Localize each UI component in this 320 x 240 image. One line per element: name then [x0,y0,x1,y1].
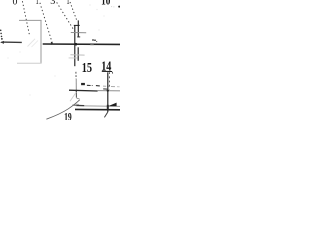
leader to label 19 (long diagonal) [46,100,79,120]
label 10 (top right, cut off) [101,0,110,8]
solid vertical under label 14 [107,72,109,112]
grey mid rail (y106) [76,105,120,108]
svg-text:15: 15 [82,60,92,76]
label 1b (top, cut off) [66,0,69,6]
underline of label 14 [102,70,112,72]
gear top tick [74,24,80,26]
shaft arrow head (left end) [0,41,4,44]
label 19 [64,111,72,124]
shaft I left segment [2,41,22,43]
dark left end of mid rail [73,104,77,106]
gear G2 lower vertical line [77,47,79,61]
small dash at line A left of vertical [103,88,107,90]
housing top edge (grey) [19,19,42,21]
line A (upper bottom rail) [69,89,98,92]
dotted leader remnant right of gears [92,39,94,41]
shaft I main segment [43,43,120,45]
svg-text:19: 19 [64,111,72,120]
svg-text:1: 1 [66,0,69,6]
small mark right of underline [111,72,114,74]
gear mid tick [77,36,80,38]
faint scan speckles [89,4,90,5]
solid wedge on mid rail [108,103,116,107]
svg-text:3: 3 [50,0,55,7]
square blob left of dash-dot line [81,83,85,85]
hook at bottom of x108 vertical [104,112,107,117]
line B (lower bottom rail) [75,108,120,110]
dot near label 10 [118,6,120,8]
leader from 1 (dashed) [40,3,52,42]
junction dot on shaft [75,43,78,46]
upper mating shaft centerline (grey) [71,32,86,34]
gear G2 upper vertical line [77,20,79,37]
label 1 (top, cut off) [36,0,39,6]
line A grey continuation [98,90,120,92]
lower grey tick [69,57,78,59]
vertical line at gear leader (x76) [75,79,77,90]
leader from 3 (dashed) [57,2,75,30]
junction dot at line A [75,90,77,92]
gear G1 vertical line [74,25,76,66]
housing bottom edge (faint grey) [17,62,42,64]
dashed stub below label 15 [75,72,77,79]
faint kink of leader 19 [70,92,76,101]
label 3 (top, cut off) [50,0,55,7]
svg-text:0: 0 [13,0,18,8]
dash-dot centerline (right middle) [87,84,91,86]
dotted leader to shaft arrow (far left) [0,30,2,32]
leader from 0 (dashed) [22,1,29,35]
label 14 [101,58,111,74]
lower mating shaft centerline (grey) [70,54,84,56]
svg-text:10: 10 [101,0,110,8]
dashed vertical under label 14 [108,72,110,89]
housing right edge (grey) [40,20,42,63]
leader from 1b (dashed) [70,2,77,20]
svg-text:1: 1 [36,0,39,6]
faint sketch mark in shaft gap [28,39,36,47]
label 15 [82,60,92,76]
tick at leader-1 end on shaft [51,42,54,45]
label 0 (top, cut off) [13,0,18,8]
black junction blob (wedge) [107,105,109,110]
hook at bottom of x76 vertical [76,97,79,99]
